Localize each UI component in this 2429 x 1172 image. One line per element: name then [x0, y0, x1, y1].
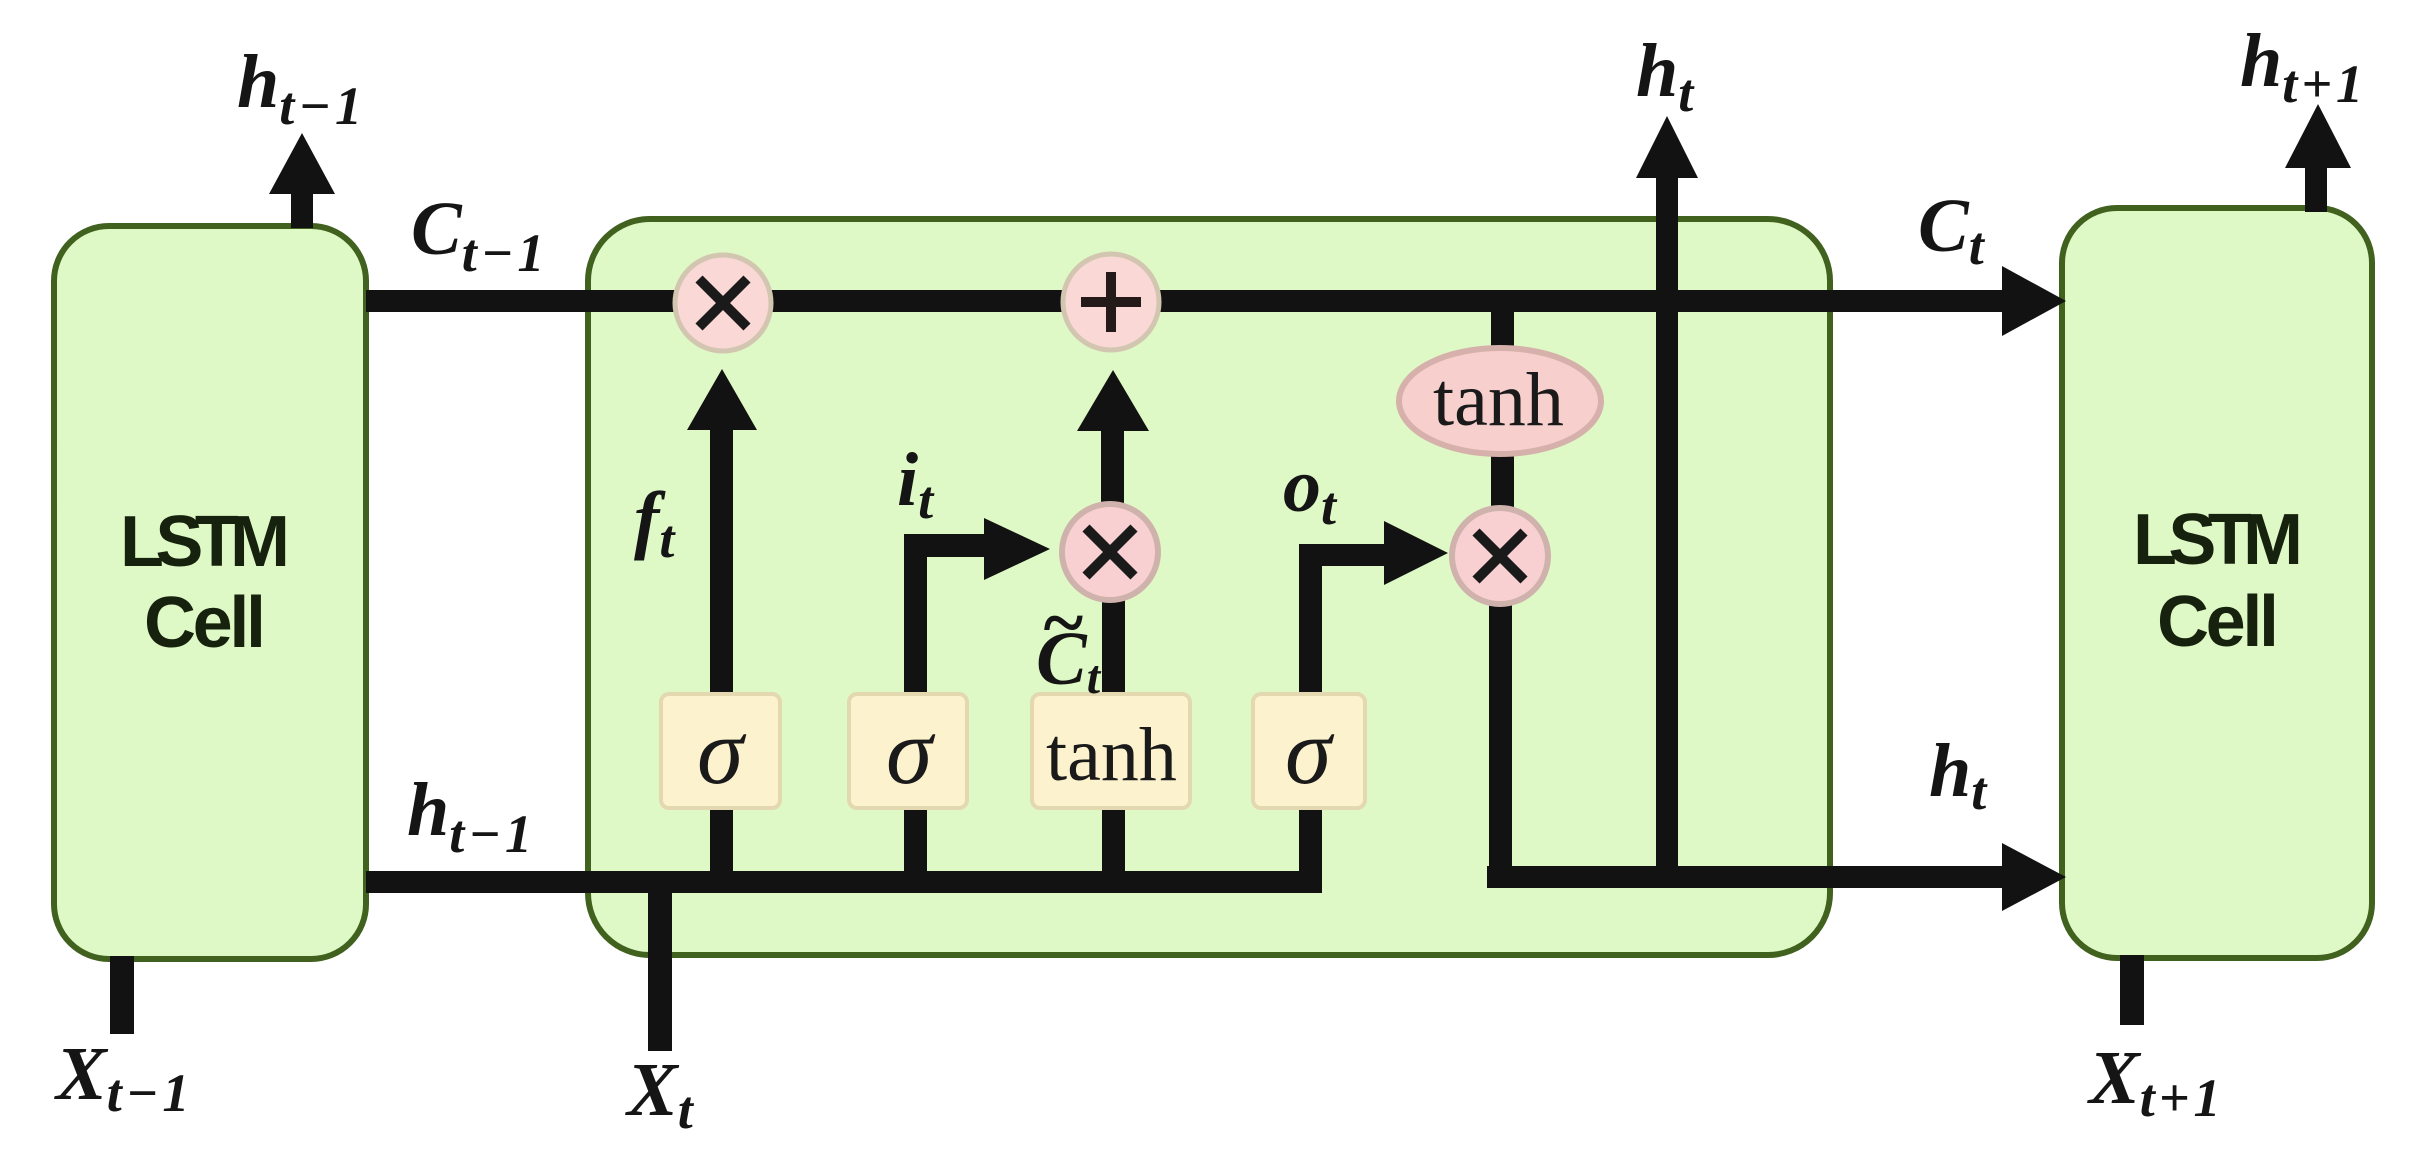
- arrow f_t up to multiply: [687, 369, 757, 694]
- label LSTM Cell left: [120, 502, 290, 663]
- gate tanh box: [1032, 694, 1190, 808]
- wire X_t-1 stem: [110, 956, 134, 1034]
- wire h_t vertical up: [1636, 116, 1698, 886]
- wire tanh ellipse stem down: [1491, 452, 1514, 510]
- multiply circle right: [1452, 508, 1548, 604]
- arrow h_t+1 out of right box: [2285, 104, 2351, 212]
- arrow multiply to plus: [1077, 370, 1149, 506]
- gate sigma box 1: [661, 694, 780, 808]
- svg-text:~: ~: [1041, 581, 1084, 665]
- svg-text:LSTM: LSTM: [120, 502, 290, 582]
- arrowhead C_t into right box: [2002, 266, 2066, 336]
- wire output multiply down and right: [1487, 600, 2066, 911]
- wire sigma1 stem down: [710, 808, 733, 874]
- wire X_t+1 stem: [2120, 955, 2144, 1025]
- svg-text:tanh: tanh: [1046, 713, 1177, 797]
- gate sigma box 2: [849, 694, 967, 808]
- tanh ellipse: [1399, 348, 1601, 454]
- wire sigma4 stem down: [1299, 808, 1322, 874]
- svg-text:σ: σ: [1285, 700, 1335, 804]
- multiply circle middle: [1062, 504, 1158, 600]
- wire i_t elbow: [904, 518, 1050, 694]
- svg-text:Cell: Cell: [2157, 582, 2279, 662]
- multiply circle top left: [675, 255, 771, 351]
- svg-text:σ: σ: [886, 700, 936, 804]
- LSTM cell box right: [2062, 208, 2372, 958]
- svg-text:Cell: Cell: [144, 583, 266, 663]
- wire C tilde stem: [1102, 600, 1125, 694]
- wire sigma2 stem down: [904, 808, 927, 874]
- wire h bottom input line: [366, 871, 1322, 893]
- wire tanh ellipse stem up: [1491, 303, 1514, 353]
- LSTM cell box left: [54, 226, 366, 959]
- svg-text:tanh: tanh: [1433, 358, 1564, 442]
- label LSTM Cell right: [2133, 500, 2303, 662]
- wire X_t stem: [648, 871, 672, 1051]
- plus circle: [1063, 254, 1159, 350]
- wire tanh box stem down: [1102, 808, 1125, 874]
- svg-text:σ: σ: [697, 700, 747, 804]
- svg-text:LSTM: LSTM: [2133, 500, 2303, 580]
- LSTM cell box center (main): [588, 219, 1830, 955]
- arrow h_t-1 out of left box: [269, 133, 335, 228]
- wire o_t elbow: [1299, 521, 1448, 694]
- wire C line horizontal: [366, 290, 2006, 312]
- gate sigma box 4: [1253, 694, 1365, 808]
